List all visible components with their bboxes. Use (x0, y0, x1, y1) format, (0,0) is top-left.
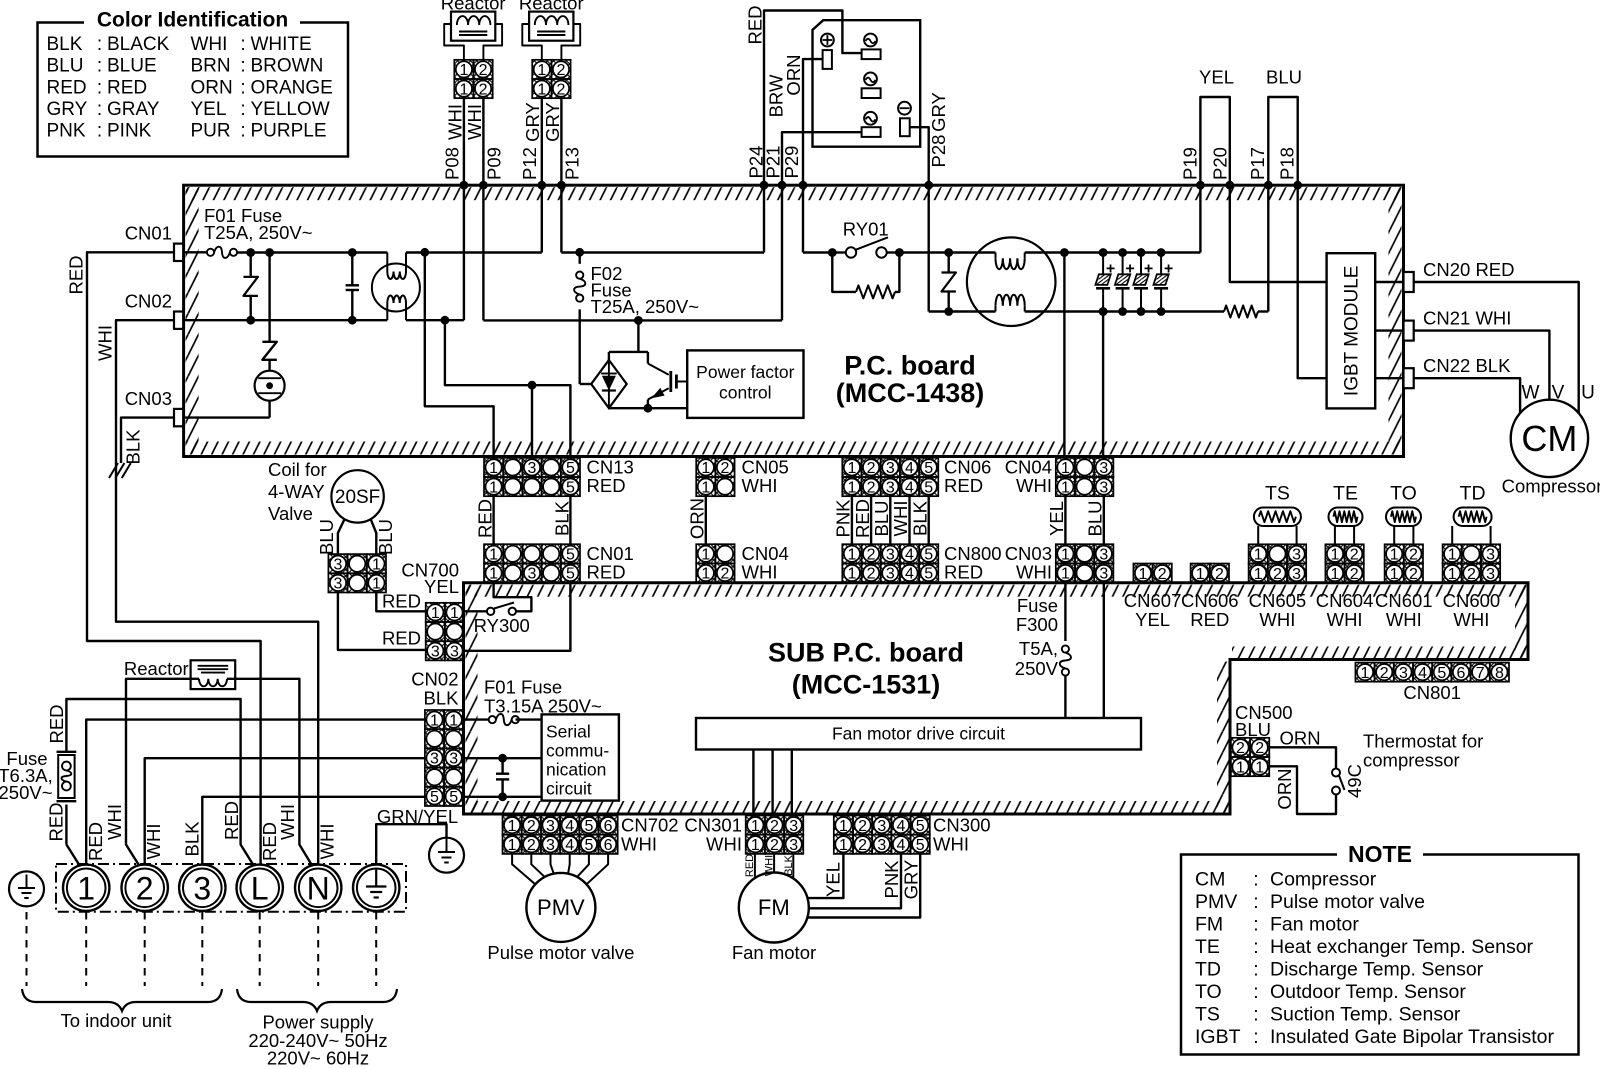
svg-text:BLK: BLK (122, 429, 143, 465)
svg-text:P09: P09 (483, 147, 504, 180)
connector CN500 (1231, 738, 1269, 777)
svg-text:IGBT MODULE: IGBT MODULE (1342, 266, 1363, 397)
svg-text:P28: P28 (928, 135, 949, 168)
svg-text:1: 1 (431, 605, 440, 622)
wire CN02 pin5 BLK to terminal 3 (202, 797, 425, 865)
svg-text:Suction Temp. Sensor: Suction Temp. Sensor (1270, 1004, 1461, 1026)
svg-text:WHI: WHI (1016, 475, 1052, 496)
thermostat 49C (1332, 769, 1340, 777)
svg-text:5: 5 (924, 566, 933, 583)
svg-text:2: 2 (1273, 566, 1282, 583)
svg-text:RED: RED (47, 77, 87, 98)
electrolytic capacitor at 1141 (1137, 248, 1146, 257)
wire CN702 to PMV (551, 854, 554, 874)
svg-text:PURPLE: PURPLE (251, 120, 327, 141)
svg-text:3: 3 (886, 566, 895, 583)
svg-text:WHI: WHI (621, 833, 657, 854)
wire fuse RED to terminal L (66, 699, 253, 865)
svg-text:WHI: WHI (1327, 609, 1363, 630)
svg-text:GRAY: GRAY (107, 99, 160, 120)
connector CN605 (1249, 544, 1307, 583)
svg-text:YEL: YEL (822, 862, 843, 897)
svg-text:GRY: GRY (928, 92, 949, 132)
svg-text:3: 3 (450, 644, 459, 661)
svg-text::: : (240, 120, 245, 141)
svg-text:WHI: WHI (1386, 609, 1422, 630)
svg-text:RED: RED (221, 801, 242, 840)
svg-text:1: 1 (751, 818, 760, 835)
wire CN04-CN03 BLU (1103, 495, 1105, 544)
svg-text:5: 5 (566, 460, 575, 477)
svg-text::: : (240, 77, 245, 98)
wire P13 (560, 98, 562, 185)
svg-text:2: 2 (770, 837, 779, 854)
svg-text:5: 5 (924, 479, 933, 496)
svg-text::: : (97, 77, 102, 98)
svg-text:ORN: ORN (191, 77, 233, 98)
svg-text:2: 2 (1255, 740, 1264, 757)
svg-text:3: 3 (528, 566, 537, 583)
svg-text:PINK: PINK (107, 120, 152, 141)
svg-text:RED: RED (382, 590, 421, 611)
svg-text:To indoor unit: To indoor unit (60, 1010, 171, 1031)
svg-text:3: 3 (886, 460, 895, 477)
FM fan motor (739, 873, 809, 943)
compressor CM (1511, 400, 1588, 477)
svg-text:1: 1 (489, 547, 498, 564)
wire to CN301 (752, 750, 754, 816)
svg-text:1: 1 (847, 479, 856, 496)
node P29 (799, 181, 808, 190)
svg-text:3: 3 (1292, 566, 1301, 583)
edge connector CN01 (174, 244, 184, 261)
svg-text:6: 6 (1457, 665, 1466, 682)
svg-text::: : (1253, 869, 1258, 891)
wire CN06-CN800 RED (870, 495, 872, 544)
svg-text:WHI: WHI (890, 501, 911, 537)
bus A to P12 (406, 251, 542, 253)
wire P24 drop (763, 185, 765, 252)
wire CN301-2 WHI (773, 854, 775, 873)
svg-text:5: 5 (916, 837, 925, 854)
NOTE legend box (1181, 855, 1579, 1055)
SUB P.C. board MCC-1531 outline (466, 585, 1527, 597)
brace power supply (237, 989, 397, 1011)
svg-text:4: 4 (565, 837, 574, 854)
wire CN300-1 YEL to FM (808, 854, 844, 898)
electrolytic capacitor at 1161.1 (1157, 248, 1166, 257)
svg-text:4: 4 (565, 818, 574, 835)
connector CN300 (834, 816, 930, 855)
svg-text:CN21 WHI: CN21 WHI (1423, 307, 1511, 328)
svg-text:2: 2 (557, 81, 566, 98)
svg-text:Insulated Gate Bipolar Transis: Insulated Gate Bipolar Transistor (1270, 1026, 1554, 1048)
svg-text:4: 4 (905, 460, 914, 477)
svg-text:CN605: CN605 (1249, 590, 1307, 611)
svg-text:CN600: CN600 (1443, 590, 1501, 611)
svg-text:3: 3 (334, 576, 343, 593)
svg-text:4: 4 (897, 837, 906, 854)
svg-text:Reactor: Reactor (124, 658, 189, 679)
svg-text:CN604: CN604 (1316, 590, 1374, 611)
svg-text:WHI: WHI (191, 34, 228, 55)
svg-text::: : (1253, 1026, 1258, 1048)
connector CN04 (sub) (696, 544, 734, 583)
connector CN600 (1443, 544, 1501, 583)
rectifier/terminal block (top right) (813, 20, 921, 147)
fan motor drive circuit box (696, 718, 1141, 750)
reactor connector P08/P09 (454, 60, 492, 99)
svg-text:2: 2 (1215, 566, 1224, 583)
svg-text:2: 2 (1350, 547, 1359, 564)
svg-text:BLK: BLK (181, 821, 202, 857)
svg-text:NOTE: NOTE (1348, 841, 1412, 867)
svg-text:20SF: 20SF (335, 487, 380, 508)
svg-text:Fan motor drive circuit: Fan motor drive circuit (832, 724, 1005, 744)
wire 20SF pin3 to CN700 RED (338, 593, 426, 650)
svg-text:1: 1 (847, 547, 856, 564)
svg-text:TO: TO (1390, 483, 1417, 505)
svg-text:1: 1 (489, 566, 498, 583)
svg-text:TD: TD (1195, 959, 1221, 981)
svg-text::: : (1253, 891, 1258, 913)
svg-text:2: 2 (479, 62, 488, 79)
svg-text:+: + (1125, 261, 1134, 278)
svg-text:BLACK: BLACK (107, 34, 170, 55)
svg-text::: : (97, 34, 102, 55)
svg-text:ORANGE: ORANGE (251, 77, 333, 98)
svg-text:W: W (1522, 383, 1540, 404)
svg-text:control: control (719, 383, 772, 403)
terminal 2 (122, 865, 168, 911)
svg-text:1: 1 (1061, 460, 1070, 477)
svg-text:CN02: CN02 (411, 668, 458, 689)
svg-text:4: 4 (905, 566, 914, 583)
terminal 1 (63, 865, 109, 911)
svg-text:RED: RED (944, 475, 983, 496)
wire CN702 to PMV (568, 854, 570, 874)
svg-text:1: 1 (839, 837, 848, 854)
earth symbol (left outside) (9, 871, 44, 906)
svg-text:WHI: WHI (706, 833, 742, 854)
svg-text:RED: RED (45, 802, 66, 841)
connector CN601 (1385, 544, 1423, 583)
svg-text:1: 1 (1361, 665, 1370, 682)
svg-text:Fuse: Fuse (1017, 595, 1058, 616)
svg-text:CN601: CN601 (1375, 590, 1433, 611)
svg-text:2: 2 (136, 870, 154, 906)
svg-text:2: 2 (721, 460, 730, 477)
tilde terminal (864, 112, 877, 125)
svg-text:GRY: GRY (900, 860, 921, 900)
connector CN13 (484, 458, 580, 497)
connector CN05 (696, 458, 734, 497)
wire to CN301 (771, 750, 773, 816)
svg-text:PUR: PUR (191, 120, 231, 141)
connector CN700 (426, 603, 464, 661)
svg-text:P20: P20 (1209, 147, 1230, 180)
svg-text:BLU: BLU (375, 519, 396, 555)
wire CN702 to PMV (531, 854, 544, 877)
YEL loop P19-P20 (1200, 97, 1229, 185)
svg-text:1: 1 (847, 566, 856, 583)
reactor connector P12/P13 (532, 60, 570, 99)
wire P29 ORN to + (803, 59, 823, 185)
svg-text:Discharge Temp. Sensor: Discharge Temp. Sensor (1270, 959, 1484, 981)
svg-text:Fan motor: Fan motor (732, 942, 816, 963)
wire CN04 pin1 from bus A (1063, 253, 1065, 458)
svg-text:Pulse motor valve: Pulse motor valve (1270, 891, 1425, 913)
wire CN02 pin3 WHI to terminal 2 (145, 758, 425, 864)
svg-text:1: 1 (459, 62, 468, 79)
svg-text:WHI: WHI (143, 824, 164, 860)
svg-text:5: 5 (584, 818, 593, 835)
svg-text:1: 1 (508, 837, 517, 854)
svg-text:1: 1 (1196, 566, 1205, 583)
svg-text:1: 1 (449, 712, 458, 729)
svg-text:WHI: WHI (104, 804, 125, 840)
svg-text:1: 1 (1448, 566, 1457, 583)
svg-text:2: 2 (557, 62, 566, 79)
wire CN500-2 ORN to 49C (1269, 747, 1336, 768)
wire CN04 pin3 from lower bus (1099, 307, 1108, 316)
svg-text:1: 1 (537, 62, 546, 79)
wire CN300-5 GRY to FM (807, 854, 920, 918)
svg-text:RED: RED (587, 475, 626, 496)
svg-text:CN801: CN801 (1403, 682, 1461, 703)
svg-text:RED: RED (65, 255, 86, 294)
wire CN13-CN01 RED (492, 495, 494, 544)
svg-text:49C: 49C (1344, 764, 1365, 798)
P20 to IGBT (1230, 185, 1327, 282)
edge connector CN22 (1404, 368, 1414, 388)
svg-text:1: 1 (701, 479, 710, 496)
svg-text:3: 3 (1486, 547, 1495, 564)
svg-text:YELLOW: YELLOW (251, 99, 330, 120)
svg-text:YEL: YEL (424, 576, 459, 597)
edge connector CN21 (1404, 321, 1414, 341)
Power factor control box (687, 350, 803, 418)
node P21 (778, 181, 787, 190)
svg-text:3: 3 (431, 644, 440, 661)
svg-text:1: 1 (1061, 566, 1070, 583)
brace to indoor unit (22, 989, 222, 1011)
svg-text:Power factor: Power factor (696, 362, 794, 382)
svg-text:2: 2 (527, 818, 536, 835)
connector CN02 BLK (sub) (425, 710, 463, 806)
P18 to IGBT (1298, 185, 1327, 378)
svg-text:Fan motor: Fan motor (1270, 914, 1359, 936)
svg-text::: : (240, 99, 245, 120)
svg-text:BLU: BLU (1235, 719, 1271, 740)
svg-text:1: 1 (450, 605, 459, 622)
fuse F300 + CN03 drops (1064, 583, 1066, 641)
svg-text:P08: P08 (441, 147, 462, 180)
svg-text:3: 3 (546, 818, 555, 835)
svg-text::: : (97, 120, 102, 141)
svg-text:1: 1 (701, 547, 710, 564)
svg-text:1: 1 (847, 460, 856, 477)
svg-text:RED: RED (744, 854, 756, 877)
svg-text::: : (1253, 914, 1258, 936)
svg-text:BLU: BLU (871, 501, 892, 537)
wire CN03 BLK to ground (121, 418, 174, 463)
wire to CN301 (791, 750, 793, 816)
svg-text:WHI: WHI (317, 824, 338, 860)
svg-text:CN300: CN300 (933, 814, 991, 835)
svg-text:1: 1 (489, 479, 498, 496)
PFC IGBT transistor (647, 352, 649, 364)
svg-text:BLU: BLU (316, 519, 337, 555)
svg-text:PNK: PNK (833, 499, 854, 538)
svg-text:1: 1 (372, 556, 381, 573)
svg-text::: : (240, 56, 245, 77)
plus terminal (821, 34, 834, 47)
svg-text:T25A, 250V~: T25A, 250V~ (204, 222, 313, 243)
svg-text:GRY: GRY (522, 102, 543, 142)
svg-text:YEL: YEL (191, 99, 227, 120)
svg-text:2: 2 (1350, 566, 1359, 583)
svg-text:compressor: compressor (1363, 749, 1460, 770)
svg-text:L: L (251, 870, 269, 906)
svg-text:TD: TD (1460, 483, 1486, 505)
svg-text:circuit: circuit (546, 779, 592, 799)
svg-text:4: 4 (905, 479, 914, 496)
svg-text:RED: RED (46, 704, 67, 743)
svg-text:3: 3 (886, 479, 895, 496)
svg-text:P29: P29 (781, 146, 802, 179)
wire fuse to terminal 1 (66, 845, 79, 865)
svg-text:1: 1 (1236, 759, 1245, 776)
svg-text:CN01: CN01 (125, 223, 172, 244)
svg-text:TS: TS (1265, 483, 1290, 505)
svg-text:3: 3 (1292, 547, 1301, 564)
svg-text:2: 2 (479, 81, 488, 98)
line Y : P09 to P21 (483, 319, 782, 321)
wire CN06-CN800 BLU (889, 495, 891, 544)
svg-text:1: 1 (1448, 547, 1457, 564)
varistor 3 (944, 248, 953, 257)
svg-text:2: 2 (858, 818, 867, 835)
wire P12 (541, 98, 543, 185)
wire P08 drop (463, 185, 465, 320)
svg-text:P19: P19 (1179, 147, 1200, 180)
svg-text::: : (1253, 936, 1258, 958)
wire CN01 RED to terminal L (87, 252, 261, 864)
svg-text:1: 1 (430, 712, 439, 729)
line filter choke (372, 264, 420, 312)
svg-text:3: 3 (1099, 547, 1108, 564)
svg-text:1: 1 (459, 81, 468, 98)
svg-text:3: 3 (546, 837, 555, 854)
svg-text:YEL: YEL (1199, 66, 1234, 87)
svg-text:RED: RED (852, 499, 873, 538)
svg-text:1: 1 (701, 566, 710, 583)
terminal earth (353, 865, 399, 911)
wire CN301-1 RED (754, 854, 756, 878)
bridge rectifier (580, 383, 592, 385)
svg-text:ORN: ORN (686, 498, 707, 539)
bus A segment 2 (561, 251, 764, 253)
svg-text:WHI: WHI (1259, 609, 1295, 630)
svg-text:Compressor: Compressor (1270, 869, 1377, 891)
connector CN03 (sub) (1056, 544, 1114, 583)
svg-text:3: 3 (1099, 566, 1108, 583)
bus A right section + caps (1064, 251, 1200, 253)
minus terminal (898, 102, 911, 115)
svg-text:1: 1 (1061, 479, 1070, 496)
svg-text:3: 3 (886, 547, 895, 564)
arrester (255, 371, 285, 401)
wire P28 GRY to - (910, 127, 929, 185)
wire CN300-4 PNK to FM (809, 854, 901, 908)
wire CN06-CN800 PNK (851, 495, 853, 544)
svg-text:WHITE: WHITE (251, 34, 312, 55)
bus B (CN02 line) (184, 319, 388, 321)
svg-text:WHI: WHI (1453, 609, 1489, 630)
wire CN301-3 BLK (792, 854, 794, 878)
svg-text:BLK: BLK (783, 854, 795, 875)
terminal block (dash-dot box) (56, 864, 406, 912)
svg-text:CN606: CN606 (1181, 590, 1239, 611)
svg-text:P13: P13 (561, 147, 582, 180)
svg-text:Coil for: Coil for (268, 459, 327, 480)
svg-text:RED: RED (587, 561, 626, 582)
svg-text:RED: RED (85, 822, 106, 861)
svg-text:CN03: CN03 (125, 388, 172, 409)
IGBT MODULE box (1327, 253, 1376, 408)
svg-text:BLU: BLU (1266, 66, 1302, 87)
svg-text:3: 3 (789, 837, 798, 854)
svg-text:CM: CM (1195, 869, 1225, 891)
svg-text:BLU: BLU (1084, 501, 1105, 537)
svg-text:2: 2 (770, 818, 779, 835)
svg-text:SUB P.C. board: SUB P.C. board (768, 637, 964, 667)
fuse F01 main (184, 251, 207, 253)
svg-text:Heat exchanger Temp. Sensor: Heat exchanger Temp. Sensor (1270, 936, 1534, 958)
connector CN800 (842, 544, 938, 583)
svg-text:3: 3 (430, 751, 439, 768)
svg-text:250V: 250V (1015, 658, 1059, 679)
svg-text:RED: RED (1190, 609, 1229, 630)
svg-text:(MCC-1438): (MCC-1438) (836, 378, 985, 408)
svg-text:BRN: BRN (191, 56, 231, 77)
svg-text:RED: RED (944, 561, 983, 582)
svg-text:nication: nication (546, 760, 606, 780)
svg-text:5: 5 (566, 479, 575, 496)
wire P09 (482, 98, 484, 185)
svg-text:4: 4 (1418, 665, 1427, 682)
svg-text:2: 2 (1158, 566, 1167, 583)
svg-text:5: 5 (924, 547, 933, 564)
connector CN604 (1325, 544, 1363, 583)
P.C. board MCC-1438 outline (186, 187, 1402, 200)
wire P12 drop (541, 185, 543, 252)
svg-text:P17: P17 (1247, 147, 1268, 180)
svg-text:1: 1 (1390, 566, 1399, 583)
svg-text:BLK: BLK (424, 687, 460, 708)
connector CN01 (sub) (484, 544, 580, 583)
svg-text:2: 2 (867, 566, 876, 583)
svg-text:5: 5 (430, 789, 439, 806)
wire CN13-CN01 BLK (569, 495, 571, 544)
svg-text:PMV: PMV (537, 895, 585, 920)
svg-text:1: 1 (1390, 547, 1399, 564)
svg-text:1: 1 (839, 818, 848, 835)
chassis ground (109, 463, 118, 478)
svg-text:commu-: commu- (546, 741, 609, 761)
svg-text:2: 2 (721, 566, 730, 583)
